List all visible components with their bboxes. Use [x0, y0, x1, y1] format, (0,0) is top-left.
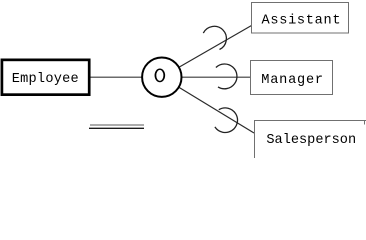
svg-text:Salesperson: Salesperson [266, 133, 356, 148]
svg-text:Assistant: Assistant [262, 14, 342, 29]
svg-text:Employee: Employee [12, 72, 79, 87]
svg-text:Manager: Manager [261, 73, 324, 88]
